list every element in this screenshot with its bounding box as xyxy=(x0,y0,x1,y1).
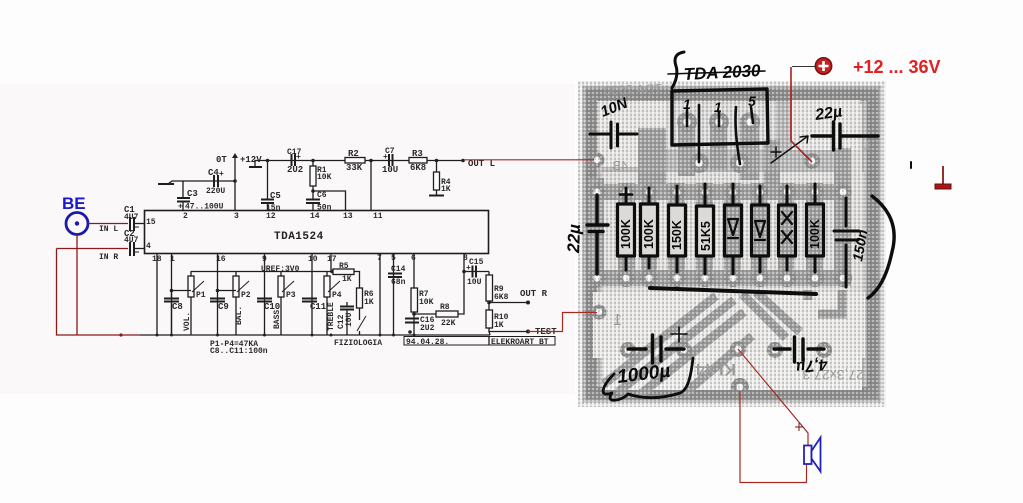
wire pin18 down xyxy=(156,254,158,336)
pads TDA2030 footprint top row xyxy=(677,112,760,132)
wire speaker return (red) xyxy=(740,391,807,483)
svg-text:13: 13 xyxy=(343,212,353,221)
svg-text:UREF:3V0: UREF:3V0 xyxy=(261,265,300,274)
svg-text:1: 1 xyxy=(613,312,622,329)
svg-text:12: 12 xyxy=(266,212,276,221)
potentiometer P2 xyxy=(235,272,237,336)
svg-text:4B: 4B xyxy=(612,158,628,173)
wire pin17 down xyxy=(330,254,332,273)
capacitor 10N symbol xyxy=(590,133,637,136)
capacitor C8 xyxy=(171,291,173,336)
capacitor C5 xyxy=(267,161,269,200)
resistor hand R-a (100K) xyxy=(625,188,628,270)
svg-text:FIZIOLOGIA: FIZIOLOGIA xyxy=(334,339,382,348)
wire L traces bottom-right xyxy=(808,290,842,314)
squiggle underline xyxy=(603,358,693,400)
svg-text:2U2: 2U2 xyxy=(420,324,435,333)
svg-text:4,7µ: 4,7µ xyxy=(795,355,829,375)
pads bottom row caps xyxy=(620,342,832,358)
capacitor C10 xyxy=(257,299,272,302)
svg-text:TDA 2030: TDA 2030 xyxy=(604,81,662,98)
svg-text:+: + xyxy=(466,264,471,273)
svg-text:17: 17 xyxy=(327,255,337,264)
potentiometer P3 xyxy=(280,272,282,336)
svg-text:10U: 10U xyxy=(382,165,398,175)
svg-text:47..100U: 47..100U xyxy=(185,203,224,212)
plus tick xyxy=(771,147,781,157)
svg-text:P3: P3 xyxy=(286,291,296,300)
svg-text:10U: 10U xyxy=(467,278,482,287)
wire pin10 down xyxy=(311,254,313,336)
svg-text:1: 1 xyxy=(170,255,175,264)
pad power entry xyxy=(804,153,820,169)
capacitor C15 xyxy=(462,270,466,274)
svg-text:TDA1524: TDA1524 xyxy=(274,231,324,243)
ground G2 xyxy=(249,166,262,168)
resistor R10 xyxy=(486,310,493,328)
node rail junctions xyxy=(156,330,416,336)
switch S1 fiziologia xyxy=(357,316,366,331)
label box 94.04.28 / ELEKROART BT xyxy=(404,337,555,346)
pads TDA2030 footprint bottom row xyxy=(689,153,750,173)
white pocket top-left xyxy=(598,101,666,167)
power terminal symbol xyxy=(815,58,831,74)
PCB border ring trace xyxy=(590,94,874,394)
svg-text:C9: C9 xyxy=(218,302,229,312)
op-amp U1 TDA1524 xyxy=(145,211,489,254)
svg-text:6K8: 6K8 xyxy=(410,163,426,173)
wire speaker diagonal (red) xyxy=(738,349,808,445)
capacitor C3 xyxy=(182,181,184,197)
node BE gnd junction xyxy=(119,333,122,336)
svg-text:+12 ... 36V: +12 ... 36V xyxy=(853,57,941,77)
connector J1 (BE jack) xyxy=(66,213,88,235)
resistor R4 xyxy=(436,161,438,173)
svg-text:3: 3 xyxy=(234,212,239,221)
svg-text:14: 14 xyxy=(310,212,320,221)
wire IN R (red) xyxy=(57,248,129,250)
capacitor C9 xyxy=(217,299,219,302)
pad OUT L entry xyxy=(590,153,605,168)
node R3 out xyxy=(435,159,439,163)
bracket curve right xyxy=(868,196,894,298)
svg-text:KI 44: KI 44 xyxy=(695,360,736,379)
svg-text:220U: 220U xyxy=(206,187,225,196)
ground G3 xyxy=(429,195,444,197)
wire pin9 down xyxy=(264,254,266,336)
svg-text:10U: 10U xyxy=(345,312,354,327)
wire IN L (red) xyxy=(88,223,128,225)
pad speaker out 2 xyxy=(730,341,746,357)
svg-text:BAL.: BAL. xyxy=(235,306,244,325)
wire P2 to C9 xyxy=(218,290,237,292)
wire diagonal traces bottom-left xyxy=(604,292,800,396)
resistor hand R-c (150K) xyxy=(676,186,679,272)
white pocket bottom text strip xyxy=(602,352,862,390)
wire OUT L xyxy=(437,160,463,162)
wire pin7 down xyxy=(379,254,381,336)
PCB copper pour interior xyxy=(584,87,880,401)
resistor R1 xyxy=(312,161,314,167)
wire bottom rail right xyxy=(489,332,527,336)
wire TEST to PCB (red) xyxy=(528,313,597,332)
node R2-C7 xyxy=(369,159,373,163)
svg-text:C8: C8 xyxy=(172,302,183,312)
scanned schematic paper tint xyxy=(0,84,575,394)
arrow to supply pad xyxy=(771,136,808,163)
svg-text:1K: 1K xyxy=(364,298,374,307)
svg-text:C8..C11:100n: C8..C11:100n xyxy=(210,347,268,356)
diode hand D-c (zener) xyxy=(786,186,789,270)
svg-text:100K: 100K xyxy=(642,219,656,249)
PCB board base xyxy=(578,81,886,407)
wire pin16 down xyxy=(217,254,219,336)
resistor hand R-e (100K) xyxy=(814,184,817,272)
svg-text:ELEKROART BT: ELEKROART BT xyxy=(491,338,549,347)
white pocket top-mid TDA area xyxy=(666,101,776,149)
svg-text:4: 4 xyxy=(146,242,151,251)
svg-text:OUT R: OUT R xyxy=(520,289,548,299)
resistor R7 xyxy=(411,288,418,312)
svg-text:P2: P2 xyxy=(241,291,251,300)
svg-text:150K: 150K xyxy=(670,220,684,250)
capacitor 22u top right symbol xyxy=(812,134,878,137)
speaker LS1 xyxy=(804,438,821,472)
svg-text:15: 15 xyxy=(146,218,156,227)
polarity tick on wire xyxy=(795,423,803,431)
pad speaker out xyxy=(731,378,749,396)
wire C4 rail xyxy=(183,180,235,182)
pad TEST entry xyxy=(592,305,607,320)
capacitor 4u7 symbol xyxy=(774,347,824,350)
capacitor C12 xyxy=(346,302,348,335)
ground G1 xyxy=(168,181,183,184)
svg-text:1K: 1K xyxy=(494,321,504,330)
bottom rail xyxy=(140,334,490,336)
wire pin6 down xyxy=(413,254,415,289)
diode hand D-a xyxy=(732,184,735,274)
wire R1 to pin 13 xyxy=(313,191,346,211)
capacitor 150n symbol xyxy=(845,198,848,287)
wire underline row xyxy=(650,288,816,294)
svg-text:IN L: IN L xyxy=(99,225,118,234)
svg-text:+: + xyxy=(219,170,224,179)
wire pin1 down xyxy=(171,254,173,336)
svg-text:+: + xyxy=(178,203,183,212)
potentiometer P1 xyxy=(190,272,192,336)
label TDA 2030 handwritten xyxy=(672,52,684,88)
white pocket top-right xyxy=(792,100,860,150)
svg-text:BE: BE xyxy=(62,194,86,213)
node TEST xyxy=(526,330,530,334)
resistor R6 xyxy=(357,288,363,308)
wire BE ground loop (red) xyxy=(57,235,141,336)
svg-text:VOL.: VOL. xyxy=(183,312,192,331)
wire OUT L to PCB (red) xyxy=(464,159,594,161)
wire P1 to C8 xyxy=(172,290,192,292)
svg-text:100K: 100K xyxy=(619,219,633,249)
svg-text:4U7: 4U7 xyxy=(124,236,139,245)
wire C2 to pin 4 xyxy=(135,248,145,250)
capacitor C11 xyxy=(302,299,317,302)
wire trace columns between pad rows xyxy=(589,118,851,286)
svg-text:33K: 33K xyxy=(346,163,363,173)
svg-text:68n: 68n xyxy=(391,278,406,287)
ground symbol (red) xyxy=(942,166,944,184)
svg-text:P1: P1 xyxy=(196,291,206,300)
trace bottom zone xyxy=(593,292,865,358)
wire power lead black xyxy=(792,66,815,68)
svg-text:22K: 22K xyxy=(441,319,456,328)
capacitor 22u left symbol xyxy=(595,195,598,274)
svg-text:IN R: IN R xyxy=(99,253,118,262)
tick mark far right xyxy=(910,162,912,168)
diode hand D-b xyxy=(759,186,762,272)
svg-text:10: 10 xyxy=(308,255,318,264)
svg-text:P4: P4 xyxy=(332,291,342,300)
svg-text:2: 2 xyxy=(183,212,188,221)
resistor hand R-d (51K5) xyxy=(704,184,707,274)
dither overlay xyxy=(578,81,886,407)
strikethrough line xyxy=(668,71,765,74)
white pocket component row xyxy=(602,172,864,292)
resistor R8 xyxy=(414,313,436,315)
svg-text:C11: C11 xyxy=(310,302,327,312)
svg-text:2U2: 2U2 xyxy=(287,165,303,175)
svg-text:OUT L: OUT L xyxy=(468,159,495,169)
potentiometer P4 xyxy=(326,272,328,336)
wire power down (red) xyxy=(791,67,812,162)
svg-text:BASS: BASS xyxy=(273,310,282,329)
svg-text:1K: 1K xyxy=(342,275,352,284)
svg-text:T: T xyxy=(863,137,872,153)
wire C1 to pin 15 xyxy=(135,223,145,225)
svg-text:22µ: 22µ xyxy=(564,224,584,255)
pad row top (component row) xyxy=(589,184,852,201)
svg-text:100K: 100K xyxy=(808,219,822,249)
capacitor 1000u symbol xyxy=(628,347,684,350)
svg-text:10K: 10K xyxy=(419,298,434,307)
pin 2 lead xyxy=(698,105,701,162)
svg-text:4U7: 4U7 xyxy=(124,213,139,222)
svg-text:6K8: 6K8 xyxy=(494,293,509,302)
svg-text:94.04.28.: 94.04.28. xyxy=(406,338,449,347)
capacitor C16 xyxy=(405,319,419,323)
polarity + mark xyxy=(671,327,687,342)
wire pin5 down xyxy=(393,254,395,336)
wire VREF rail xyxy=(191,271,333,273)
resistor hand R-b (100K) xyxy=(648,188,651,268)
wire R5 to R6 xyxy=(354,272,360,289)
svg-text:10K: 10K xyxy=(317,173,332,182)
svg-text:+: + xyxy=(383,153,388,162)
pin 4 lead xyxy=(736,107,741,164)
wire C7 node to pin 11 xyxy=(370,161,372,211)
resistor R9 xyxy=(488,272,490,276)
svg-text:TREBLE: TREBLE xyxy=(327,302,336,331)
svg-text:1K: 1K xyxy=(441,185,451,194)
wire OUT R xyxy=(489,302,528,304)
svg-text:+: + xyxy=(296,153,301,162)
svg-text:51K5: 51K5 xyxy=(699,221,713,251)
wire top rail +12V xyxy=(255,161,437,168)
pad row bottom (component row) xyxy=(588,269,852,287)
resistor R5 xyxy=(330,270,334,274)
svg-text:0T: 0T xyxy=(216,155,227,165)
svg-text:11: 11 xyxy=(373,212,383,221)
IC U2 TDA2030 outline box xyxy=(672,89,768,145)
